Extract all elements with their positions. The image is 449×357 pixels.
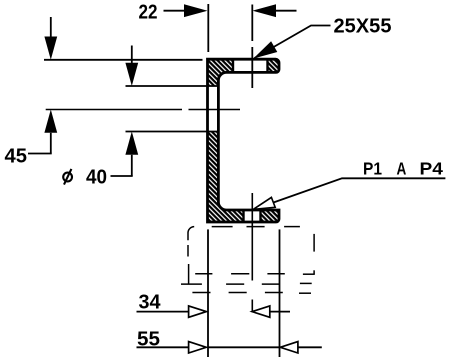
- dimension 55 text: [137, 329, 160, 351]
- dimension 45 text: [5, 146, 28, 168]
- bottom extension line left: [207, 229, 209, 357]
- hidden rect top-left corner dash: [188, 227, 194, 241]
- svg-text:25X55: 25X55: [334, 16, 392, 38]
- svg-text:34: 34: [139, 292, 162, 314]
- dim 22 extension line left: [207, 4, 209, 52]
- bottom extension line right: [279, 229, 281, 357]
- dim 22 filled arrow right: [184, 4, 208, 17]
- web hole centerline: [46, 109, 240, 111]
- svg-text:22: 22: [139, 2, 158, 24]
- svg-text:P1: P1: [363, 159, 382, 179]
- label 25X55 leader: [255, 26, 331, 59]
- label 25X55 arrowhead: [253, 41, 277, 58]
- label P1 A P4 text: [363, 159, 443, 179]
- dim 22 leader line: [164, 10, 186, 12]
- dimension 22 text: [139, 2, 158, 24]
- hatch top-flange tip: [268, 59, 280, 72]
- dim 22 filled arrow left: [253, 4, 297, 17]
- hidden row B dashes: [181, 282, 312, 285]
- section outline: [208, 59, 280, 222]
- dim 40 down arrow: [125, 46, 138, 87]
- dim 34 open arrow left: [252, 306, 290, 317]
- slot centerline top: [251, 5, 253, 89]
- hidden row C dashes: [192, 292, 311, 295]
- dim 45 up arrow: [44, 110, 57, 154]
- dim 34 line and open arrow right: [137, 306, 207, 317]
- hidden rect right edge dashes: [313, 234, 315, 275]
- label 25X55 text: [334, 16, 392, 38]
- slot wall right: [266, 59, 268, 72]
- hidden rect top edge dashes: [212, 226, 300, 228]
- slot wall left (25X55): [232, 59, 234, 72]
- svg-text:P4: P4: [420, 159, 444, 179]
- svg-text:A: A: [397, 159, 407, 179]
- bottom centerline: [251, 193, 253, 311]
- hatch bottom-flange tip: [261, 210, 280, 222]
- hatch top-flange-left and upper web: [208, 59, 234, 86]
- dim 40 up arrow: [125, 132, 138, 177]
- svg-text:45: 45: [5, 146, 28, 168]
- dim 40 elbow: [111, 175, 133, 177]
- web hole top edge: [126, 85, 220, 87]
- label P1 A P4 open arrowhead: [253, 197, 275, 209]
- dim 45 down arrow: [44, 17, 57, 60]
- dim 45 elbow: [28, 153, 52, 155]
- dim 55 line and open arrow right: [137, 342, 280, 353]
- bottom hole wall left: [242, 210, 244, 222]
- hidden rect left edge dashes: [187, 245, 190, 284]
- svg-text:40: 40: [86, 167, 107, 189]
- hidden row A dashes: [195, 273, 315, 275]
- hatch lower web and bottom-flange-left: [208, 132, 244, 223]
- dimension 34 text: [139, 292, 162, 314]
- label P1 A P4 underline leader: [272, 178, 445, 203]
- dimension dia 40 text: [63, 167, 107, 189]
- dim 55 open arrow left: [280, 342, 322, 353]
- flange top extension line: [44, 59, 203, 61]
- bottom hole wall right: [259, 210, 261, 222]
- web hole bottom edge: [126, 131, 220, 133]
